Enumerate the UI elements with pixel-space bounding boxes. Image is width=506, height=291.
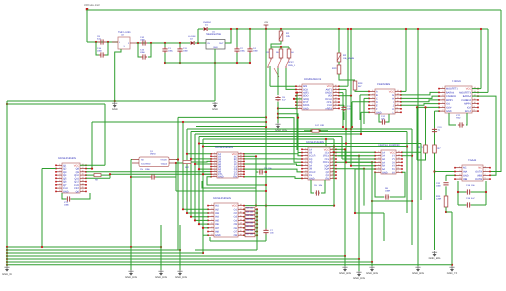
ground GND_W — [4, 266, 9, 269]
capacitor C1 — [164, 42, 166, 44]
svg-text:GND_BIG: GND_BIG — [412, 272, 424, 275]
svg-text:BARA4: BARA4 — [463, 95, 472, 98]
svg-text:12: 12 — [397, 96, 399, 99]
svg-text:R20 10k: R20 10k — [246, 207, 253, 210]
svg-text:18: 18 — [240, 203, 242, 206]
wire U4 right2 — [472, 91, 488, 93]
svg-text:IO2: IO2 — [467, 106, 472, 109]
wire to GND_TX — [451, 212, 453, 265]
svg-text:GND: GND — [213, 46, 218, 49]
svg-text:8: 8 — [59, 186, 60, 189]
wire R1 to pullups — [271, 41, 281, 47]
svg-text:8: 8 — [211, 229, 212, 232]
svg-text:13: 13 — [398, 153, 400, 156]
svg-text:9: 9 — [59, 189, 60, 192]
svg-text:10: 10 — [474, 101, 476, 104]
svg-text:SW5_1: SW5_1 — [288, 64, 296, 67]
svg-text:4: 4 — [442, 98, 443, 101]
ground GND_DIG 3 — [179, 225, 181, 270]
power +5V symbol — [265, 28, 267, 30]
wire U9 left staircase — [334, 151, 375, 153]
wire hub vertical junction — [265, 205, 267, 207]
svg-text:3: 3 — [211, 211, 212, 214]
wire nested h131 — [191, 131, 407, 133]
wire U2 gnd lead — [115, 49, 121, 101]
ground GND_DIG 1 — [130, 247, 132, 270]
svg-text:1: 1 — [59, 163, 60, 166]
wire input rail — [87, 41, 118, 43]
svg-text:13: 13 — [335, 93, 337, 96]
wire U3 VCC up — [401, 90, 406, 92]
svg-text:GND_BIG: GND_BIG — [366, 272, 378, 275]
svg-text:10R: 10R — [320, 124, 324, 127]
svg-text:15: 15 — [240, 214, 242, 217]
svg-text:8: 8 — [485, 165, 486, 168]
svg-text:MPP1: MPP1 — [446, 99, 453, 102]
capacitor C15 — [138, 43, 141, 57]
bottom bus line6 — [7, 261, 372, 263]
svg-text:GND: GND — [376, 111, 382, 114]
svg-text:7: 7 — [305, 166, 306, 169]
svg-text:10: 10 — [240, 233, 242, 236]
svg-text:NC: NC — [478, 167, 482, 170]
ground GND_BIG d — [415, 266, 420, 269]
svg-text:1: 1 — [211, 203, 212, 206]
resistor R1 — [280, 28, 282, 30]
svg-text:IN5: IN5 — [215, 219, 220, 222]
svg-text:NC: NC — [463, 167, 467, 170]
svg-text:13: 13 — [240, 222, 242, 225]
svg-text:6: 6 — [299, 100, 300, 103]
svg-text:13: 13 — [397, 93, 399, 96]
svg-text:9: 9 — [305, 173, 306, 176]
svg-text:GND_DIG: GND_DIG — [155, 276, 167, 279]
svg-text:120R: 120R — [436, 198, 442, 201]
wire long h122 — [92, 121, 266, 123]
svg-text:11: 11 — [335, 100, 337, 103]
svg-text:SN74HC4538N: SN74HC4538N — [306, 141, 324, 144]
wire h213 — [355, 212, 384, 214]
svg-text:MOSFET4: MOSFET4 — [459, 91, 471, 94]
svg-text:1N4004: 1N4004 — [203, 21, 211, 24]
bottom bus line7 — [7, 264, 452, 266]
wire U8 left fan rows — [187, 153, 211, 155]
svg-text:2: 2 — [442, 90, 443, 93]
wire nested h136 — [199, 136, 342, 138]
svg-text:CANB04: CANB04 — [461, 99, 471, 102]
svg-text:4: 4 — [305, 157, 306, 160]
svg-text:4: 4 — [59, 173, 60, 176]
resistor R4 — [288, 47, 290, 49]
capacitor C7 — [263, 229, 268, 235]
svg-text:5: 5 — [378, 163, 379, 166]
svg-text:100n: 100n — [436, 185, 442, 188]
wire U4 left resistors — [417, 106, 439, 108]
svg-text:3: 3 — [59, 169, 60, 172]
svg-text:3: 3 — [372, 96, 373, 99]
wire v421b — [420, 144, 422, 153]
capacitor C17 — [339, 104, 344, 106]
svg-text:TJK026: TJK026 — [452, 80, 461, 83]
svg-text:16: 16 — [82, 169, 84, 172]
wire U8 link v256 — [244, 155, 256, 157]
svg-text:10: 10 — [397, 103, 399, 106]
wire C8 to ground — [277, 102, 279, 123]
svg-text:4: 4 — [378, 160, 379, 163]
wire U7 left — [42, 168, 56, 170]
wire v412 — [411, 129, 413, 245]
svg-text:1: 1 — [305, 147, 306, 150]
wire hub rows to RF — [296, 93, 298, 150]
wire R11 down — [417, 153, 426, 160]
svg-text:OUT: OUT — [219, 42, 224, 45]
svg-text:2: 2 — [378, 153, 379, 156]
svg-text:EN: EN — [326, 177, 330, 180]
ground GND_DIG b — [358, 259, 360, 271]
svg-text:4: 4 — [211, 214, 212, 217]
svg-text:6: 6 — [372, 106, 373, 109]
diode D2 LL4148 — [191, 41, 195, 45]
svg-text:11: 11 — [474, 98, 476, 101]
svg-text:MOSFET1: MOSFET1 — [446, 88, 458, 91]
svg-text:14: 14 — [82, 176, 84, 179]
svg-text:7: 7 — [59, 182, 60, 185]
ground GND left — [112, 102, 117, 105]
svg-text:6: 6 — [442, 105, 443, 108]
svg-text:IN4: IN4 — [215, 216, 220, 219]
svg-text:R13: R13 — [358, 82, 363, 85]
svg-text:20: 20 — [332, 147, 334, 150]
wire C24 branch — [434, 111, 436, 145]
svg-text:6: 6 — [59, 179, 60, 182]
svg-text:GND: GND — [463, 174, 469, 177]
svg-text:IO1: IO1 — [446, 103, 451, 106]
svg-text:10: 10 — [213, 174, 215, 177]
resistor R5 — [280, 47, 282, 49]
jumper R12 — [183, 160, 191, 163]
svg-text:SPST: SPST — [288, 61, 294, 64]
svg-text:4: 4 — [299, 93, 300, 96]
svg-text:10: 10 — [304, 176, 306, 179]
ground GND_BIG c — [371, 262, 373, 266]
resistor R10 — [338, 62, 340, 65]
svg-text:2: 2 — [305, 150, 306, 153]
svg-text:SN74HC4040N: SN74HC4040N — [58, 157, 76, 160]
capacitor C3 — [256, 171, 258, 173]
svg-text:R23 10k: R23 10k — [246, 218, 253, 221]
svg-text:2MHz: 2MHz — [150, 153, 156, 156]
svg-text:INB: INB — [463, 178, 468, 181]
svg-text:R22 10k: R22 10k — [246, 214, 253, 217]
svg-text:+5V: +5V — [264, 21, 269, 24]
wire long h146 — [203, 146, 407, 148]
svg-text:1: 1 — [378, 150, 379, 153]
wire long h143 — [199, 143, 421, 145]
svg-text:SN74HC4066N: SN74HC4066N — [215, 146, 233, 149]
svg-text:+5VDC: +5VDC — [160, 159, 167, 162]
svg-text:12: 12 — [332, 173, 334, 176]
svg-text:R21 10k: R21 10k — [246, 210, 253, 213]
capacitor C8 — [275, 96, 280, 101]
wire B-C weave 3 — [175, 177, 177, 191]
svg-text:8: 8 — [397, 110, 398, 113]
svg-text:5: 5 — [305, 160, 306, 163]
wire R7 to U10 and ground — [434, 153, 436, 250]
svg-text:GND: GND — [63, 190, 69, 193]
svg-text:2: 2 — [459, 169, 460, 172]
svg-text:16: 16 — [332, 160, 334, 163]
bottom bus line5 — [7, 258, 359, 260]
wire long h104 — [7, 103, 105, 105]
svg-text:VCC: VCC — [232, 205, 237, 208]
crystal XT1 under U7 — [62, 193, 66, 199]
wire U9 right rows — [402, 151, 421, 153]
wire U1 out up — [225, 29, 231, 43]
svg-text:74HC14_DUMP40: 74HC14_DUMP40 — [378, 144, 400, 147]
svg-text:8: 8 — [398, 170, 399, 173]
svg-text:IN7: IN7 — [215, 227, 220, 230]
svg-text:17: 17 — [82, 166, 84, 169]
wire mid rail — [136, 42, 190, 44]
wire U1 gnd — [214, 49, 216, 101]
svg-text:7: 7 — [485, 169, 486, 172]
svg-text:1: 1 — [459, 165, 460, 168]
svg-text:14: 14 — [240, 218, 242, 221]
wire U3 to U4 rows — [401, 92, 439, 95]
wire U7 vcc up — [80, 164, 105, 166]
svg-text:13: 13 — [240, 169, 242, 172]
wire U7 to U8 rows — [110, 173, 211, 175]
svg-text:7: 7 — [299, 103, 300, 106]
svg-text:GND: GND — [303, 107, 309, 110]
wire long h117 — [178, 116, 266, 118]
svg-text:6Y: 6Y — [392, 171, 395, 174]
svg-text:GND_BIG: GND_BIG — [429, 257, 441, 260]
svg-text:GND: GND — [112, 108, 118, 111]
wire nested h129 — [187, 128, 412, 130]
svg-text:GND: GND — [215, 234, 221, 237]
svg-text:100u: 100u — [168, 50, 174, 53]
svg-text:1: 1 — [442, 86, 443, 89]
svg-text:8: 8 — [299, 106, 300, 109]
diode D1 1N4004 — [198, 28, 203, 30]
svg-text:19: 19 — [240, 154, 242, 157]
svg-text:BARA4: BARA4 — [446, 91, 455, 94]
svg-text:100R: 100R — [385, 190, 391, 193]
svg-text:100n: 100n — [140, 39, 146, 42]
svg-text:5: 5 — [372, 103, 373, 106]
svg-text:GND_W: GND_W — [2, 273, 12, 276]
wire h201 — [372, 200, 412, 202]
ground GND_DIG 2 — [160, 225, 162, 270]
svg-text:R14: R14 — [436, 195, 441, 198]
capacitor C4 — [249, 28, 251, 30]
svg-text:100n: 100n — [183, 50, 189, 53]
resistor pack RN1 — [244, 208, 245, 210]
capacitor C5 loop — [131, 159, 132, 161]
capacitor C9 — [98, 39, 106, 44]
wire U3 left fan — [360, 94, 369, 96]
svg-text:3: 3 — [305, 153, 306, 156]
svg-text:IN1: IN1 — [215, 205, 220, 208]
wire +5V column — [265, 29, 267, 230]
ground GND_BIG mid — [432, 251, 437, 254]
resistor R7 — [433, 145, 437, 153]
wire left edge vertical — [6, 101, 8, 266]
svg-text:100n: 100n — [145, 168, 151, 171]
wire D2 to regulator — [195, 42, 206, 44]
svg-text:12: 12 — [82, 182, 84, 185]
wire node up — [197, 29, 199, 43]
resistor R14 — [444, 196, 448, 207]
svg-text:10: 10 — [82, 189, 84, 192]
svg-text:INA: INA — [463, 171, 468, 174]
wire U4 right3 — [472, 96, 496, 175]
wire VCC drop — [86, 10, 88, 42]
svg-text:R24 10k: R24 10k — [246, 222, 253, 225]
svg-text:3: 3 — [299, 90, 300, 93]
svg-text:R26 10k: R26 10k — [246, 229, 253, 232]
svg-text:12: 12 — [240, 225, 242, 228]
wire U8 right to U6 rows — [244, 153, 302, 154]
svg-text:3: 3 — [442, 94, 443, 97]
svg-text:R10: R10 — [332, 67, 337, 70]
wire RF right rows — [339, 88, 346, 90]
bottom bus line2 — [7, 249, 180, 251]
svg-text:4: 4 — [459, 177, 460, 180]
svg-text:IN3: IN3 — [215, 212, 220, 215]
ground GND_BIG a — [344, 256, 346, 266]
svg-text:7: 7 — [378, 170, 379, 173]
wire U11 gnd to bus — [203, 234, 208, 236]
svg-text:4: 4 — [214, 159, 215, 162]
wire osc +5 up — [176, 159, 178, 161]
wire v105 to U7 vcc — [104, 104, 106, 165]
svg-text:17: 17 — [332, 157, 334, 160]
svg-text:TSR 1-2450: TSR 1-2450 — [118, 31, 131, 34]
bottom bus line4 — [7, 255, 345, 257]
wire vcc row long — [244, 205, 334, 207]
svg-text:GND: GND — [446, 110, 452, 113]
wire RF row3 drop — [350, 96, 352, 129]
ground GND right — [212, 102, 217, 105]
svg-text:IN6: IN6 — [215, 223, 220, 226]
svg-text:6: 6 — [305, 163, 306, 166]
svg-text:6: 6 — [214, 164, 215, 167]
svg-text:10k_NNNN: 10k_NNNN — [343, 57, 354, 60]
wire U6 right rows — [336, 148, 345, 150]
resistor R3 — [270, 47, 272, 49]
wire C7 bottom rail — [210, 240, 266, 242]
resistor R13 — [353, 81, 357, 90]
svg-text:CANB03: CANB03 — [446, 95, 456, 98]
capacitor C2 — [236, 28, 238, 30]
wire v92 from U7 — [91, 122, 93, 169]
svg-text:1: 1 — [372, 89, 373, 92]
svg-text:TBD: TBD — [456, 117, 461, 120]
svg-text:9: 9 — [211, 233, 212, 236]
svg-text:12: 12 — [335, 97, 337, 100]
capacitor C16 — [96, 42, 99, 55]
svg-text:VBB: VBB — [477, 174, 482, 177]
svg-text:11: 11 — [240, 174, 242, 177]
wire hub to U6 rows — [278, 114, 302, 156]
svg-text:7: 7 — [442, 109, 443, 112]
svg-text:OUTB: OUTB — [475, 178, 482, 181]
svg-text:4: 4 — [372, 99, 373, 102]
wire nested h139 — [203, 138, 334, 140]
bottom bus line3 — [7, 252, 203, 254]
wire long h126 — [196, 126, 266, 128]
svg-text:5: 5 — [485, 177, 486, 180]
capacitor C10 — [141, 40, 147, 45]
wire gnd bottom rail — [165, 62, 250, 64]
wire v407 — [406, 132, 408, 214]
svg-text:11: 11 — [398, 160, 400, 163]
svg-text:SCL#: SCL# — [465, 110, 472, 113]
svg-text:10: 10 — [335, 103, 337, 106]
svg-text:15: 15 — [240, 164, 242, 167]
bottom bus line1 — [7, 246, 161, 248]
wire SW2 to C8 — [277, 68, 279, 95]
wire v417 — [416, 107, 418, 160]
wire +12 branch to ground — [417, 29, 419, 266]
wire osc out to jumper — [176, 162, 183, 164]
svg-text:GND_BIG: GND_BIG — [339, 272, 351, 275]
svg-text:8: 8 — [214, 169, 215, 172]
svg-text:9: 9 — [398, 167, 399, 170]
wire B-C weave 2 — [202, 181, 256, 188]
svg-text:3: 3 — [378, 157, 379, 160]
svg-text:2: 2 — [299, 87, 300, 90]
svg-text:R27 10k: R27 10k — [246, 233, 253, 236]
wire SW3 to RF module — [286, 68, 296, 89]
svg-text:12: 12 — [398, 157, 400, 160]
svg-text:6: 6 — [485, 173, 486, 176]
svg-text:2: 2 — [211, 207, 212, 210]
ground GND_TX — [449, 266, 454, 269]
svg-text:CaseGND: CaseGND — [141, 163, 151, 166]
svg-text:16: 16 — [240, 211, 242, 214]
svg-text:CD4050BN: CD4050BN — [377, 83, 390, 86]
svg-text:2: 2 — [372, 93, 373, 96]
svg-text:RFM01/868.02: RFM01/868.02 — [304, 78, 322, 81]
svg-text:100n: 100n — [140, 51, 146, 54]
svg-text:14: 14 — [397, 89, 399, 92]
svg-text:1: 1 — [299, 84, 300, 87]
wire left gnd drop — [6, 247, 8, 266]
svg-text:13: 13 — [332, 170, 334, 173]
svg-text:TGA42: TGA42 — [468, 159, 477, 162]
wire R13 to U3 — [355, 90, 369, 91]
svg-text:3: 3 — [459, 173, 460, 176]
svg-text:9: 9 — [335, 106, 336, 109]
svg-text:5: 5 — [59, 176, 60, 179]
svg-text:14: 14 — [335, 90, 337, 93]
svg-text:R25 10k: R25 10k — [246, 225, 253, 228]
resistor R2 — [338, 28, 340, 30]
svg-text:11: 11 — [82, 186, 84, 189]
svg-text:OUTA: OUTA — [475, 171, 482, 174]
svg-text:9: 9 — [397, 106, 398, 109]
svg-text:GND_DIG: GND_DIG — [175, 276, 187, 279]
svg-text:SN74HC4066N: SN74HC4066N — [213, 197, 231, 200]
svg-text:100u: 100u — [240, 50, 246, 53]
svg-text:18: 18 — [332, 153, 334, 156]
wire R2 down — [339, 74, 355, 80]
svg-text:GND_DIG: GND_DIG — [125, 276, 137, 279]
wire nested h134 — [195, 133, 361, 135]
